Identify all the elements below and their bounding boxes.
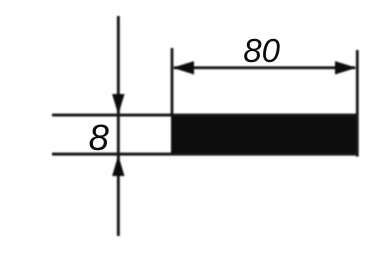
svg-text:80: 80 xyxy=(243,32,280,69)
arrowhead right of 80 dimension xyxy=(335,61,357,74)
flat bar profile (filled section) xyxy=(171,115,357,155)
right extension line for 80 dimension xyxy=(356,50,359,157)
svg-text:8: 8 xyxy=(89,117,110,158)
bottom edge line of bar extended (extension line for 8) xyxy=(52,153,359,156)
arrowhead pointing down at bar top xyxy=(112,94,124,115)
left extension line for 80 dimension xyxy=(171,48,174,116)
dimension line 80 (horizontal with two arrowheads) xyxy=(174,66,355,69)
vertical dimension line for 8 (continuous) xyxy=(117,16,120,236)
top edge line of bar extended left (extension line for 8) xyxy=(52,114,356,117)
arrowhead pointing up at bar bottom xyxy=(112,155,124,176)
arrowhead left of 80 dimension xyxy=(173,61,195,74)
